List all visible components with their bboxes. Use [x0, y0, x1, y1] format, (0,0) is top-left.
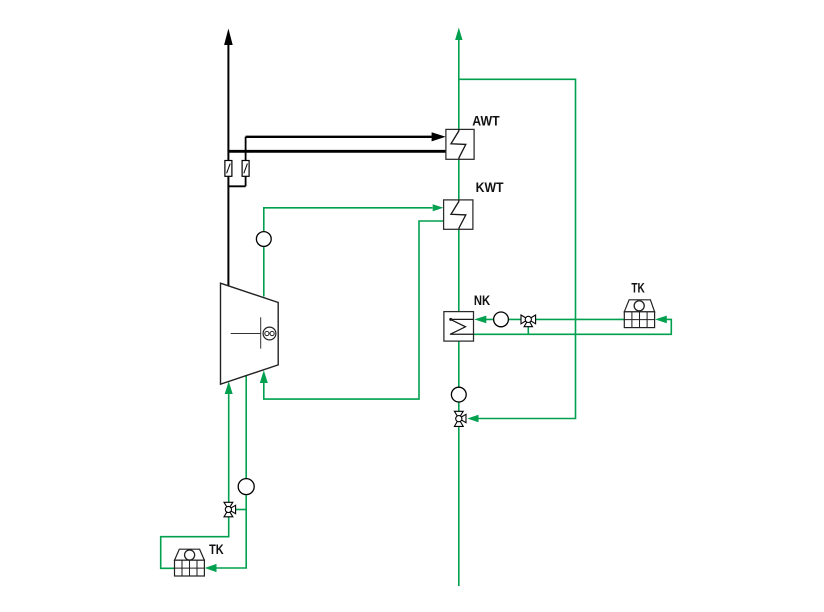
- svg-text:AWT: AWT: [472, 113, 500, 129]
- svg-text:TK: TK: [209, 541, 224, 557]
- svg-text:KWT: KWT: [476, 179, 504, 195]
- svg-text:NK: NK: [474, 292, 490, 308]
- svg-text:TK: TK: [631, 280, 644, 296]
